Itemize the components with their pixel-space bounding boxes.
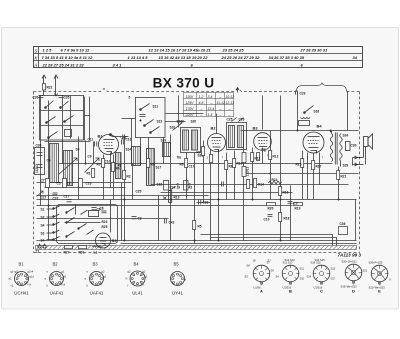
svg-text:C19: C19 xyxy=(86,182,92,186)
choke L1 xyxy=(93,246,102,247)
svg-text:C42: C42 xyxy=(169,221,175,225)
antenna lead 2 xyxy=(54,75,58,96)
wire xyxy=(355,200,357,241)
wire xyxy=(93,142,95,164)
wire xyxy=(262,96,264,130)
resistor R17 xyxy=(312,161,315,170)
svg-text:–: – xyxy=(219,95,222,99)
wire xyxy=(319,153,321,185)
mixer coil box xyxy=(132,147,141,166)
wire left rail xyxy=(37,205,293,207)
IF transformer 1 xyxy=(180,121,201,153)
svg-text:34: 34 xyxy=(353,55,358,60)
svg-text:34 36 37 38 3 40 35: 34 36 37 38 3 40 35 xyxy=(269,55,305,60)
capacitor C11 xyxy=(95,142,97,147)
svg-text:R18: R18 xyxy=(284,217,290,221)
svg-text:S11: S11 xyxy=(300,267,305,271)
resistor R01 xyxy=(79,246,87,249)
wire left rail b xyxy=(45,187,126,189)
svg-text:1 13 14 4 5: 1 13 14 4 5 xyxy=(128,55,149,60)
junction xyxy=(194,240,196,242)
junction xyxy=(330,130,332,132)
wire screen rail xyxy=(59,163,333,165)
tube B4 UL41 xyxy=(303,132,324,154)
wire rail mid xyxy=(151,184,349,186)
svg-text:R17: R17 xyxy=(316,165,322,169)
svg-text:S29: S29 xyxy=(343,164,349,168)
tube B3 UAF41 xyxy=(254,133,272,152)
svg-text:S18: S18 xyxy=(177,120,183,124)
capacitor C33 xyxy=(199,200,201,205)
svg-text:S11: S11 xyxy=(153,105,159,109)
wire left rail c xyxy=(37,195,209,197)
capacitor C35 xyxy=(59,96,64,98)
svg-text:10-12: 10-12 xyxy=(226,95,235,99)
switch wafer B xyxy=(282,265,299,285)
wire xyxy=(302,151,304,200)
table row 3 contacts xyxy=(42,62,304,67)
aerial input switch unit box xyxy=(40,96,84,141)
antenna lead 1 xyxy=(42,75,46,96)
mains plug Z1 xyxy=(38,244,46,249)
svg-text:S20+19+S21: S20+19+S21 xyxy=(342,260,358,264)
volume potentiometer R13 xyxy=(163,191,172,203)
wire xyxy=(70,96,72,139)
svg-text:R20: R20 xyxy=(268,207,274,211)
wire xyxy=(113,155,115,200)
svg-text:3 4 1: 3 4 1 xyxy=(113,62,123,67)
resistor R11 xyxy=(251,153,254,162)
svg-text:R6: R6 xyxy=(180,163,184,167)
svg-text:19: 19 xyxy=(177,186,181,190)
svg-text:C38: C38 xyxy=(36,144,42,148)
svg-text:U1/S16: U1/S16 xyxy=(283,286,292,290)
AF coupling group S18/C24/C19/C43 xyxy=(164,181,189,191)
pin numbers xyxy=(101,154,324,162)
svg-text:C26: C26 xyxy=(239,118,245,122)
table row labels xyxy=(34,48,38,67)
svg-text:R5: R5 xyxy=(198,225,202,229)
wire rail right mid xyxy=(244,173,359,175)
svg-text:C3: C3 xyxy=(294,202,298,206)
switch S2 arrow xyxy=(65,116,74,122)
capacitor C8 xyxy=(92,208,97,210)
wire xyxy=(62,96,64,164)
svg-text:125V: 125V xyxy=(186,101,195,105)
svg-text:7fa: 7fa xyxy=(177,156,182,160)
svg-text:110V: 110V xyxy=(186,95,194,99)
svg-text:C4: C4 xyxy=(47,159,51,163)
wire xyxy=(124,138,126,241)
svg-text:R22: R22 xyxy=(47,86,53,90)
tube base B3 diagram xyxy=(90,272,104,286)
wire xyxy=(243,131,245,241)
resistor stack left of B3 xyxy=(242,153,246,163)
svg-text:R21: R21 xyxy=(341,175,347,179)
svg-text:R2: R2 xyxy=(127,175,131,179)
svg-text:B3: B3 xyxy=(93,262,99,267)
svg-text:1-5: 1-5 xyxy=(208,113,213,117)
svg-text:7 34 33 8 41 9 10 4a 8 11 12: 7 34 33 8 41 9 10 4a 8 11 12 xyxy=(42,55,94,60)
svg-text:S12·S13: S12·S13 xyxy=(285,258,296,262)
svg-text:C17: C17 xyxy=(64,195,70,199)
resistor R9 xyxy=(147,159,150,168)
wire xyxy=(347,92,349,131)
svg-text:R01: R01 xyxy=(79,251,85,255)
svg-text:S9: S9 xyxy=(271,269,275,273)
wire bottom-right corner runs xyxy=(201,235,337,246)
wire xyxy=(85,141,87,164)
wire xyxy=(110,153,112,188)
capacitor C10 xyxy=(268,215,273,217)
resistor R10 xyxy=(233,159,236,168)
svg-text:S20: S20 xyxy=(191,120,197,124)
svg-text:1 2 5: 1 2 5 xyxy=(43,48,53,53)
wire xyxy=(170,135,172,241)
connection table frame xyxy=(34,47,363,68)
svg-text:UAF41: UAF41 xyxy=(50,291,64,296)
wire AGC long rail xyxy=(37,199,357,201)
svg-text:C20: C20 xyxy=(136,190,142,194)
power supply box xyxy=(57,205,118,244)
svg-text:–: – xyxy=(210,101,213,105)
switch contacts inside power box xyxy=(66,208,99,238)
junction xyxy=(270,173,272,175)
svg-text:S1: S1 xyxy=(41,208,45,212)
junction xyxy=(252,199,254,201)
svg-text:C25: C25 xyxy=(227,118,233,122)
svg-text:C37: C37 xyxy=(53,197,59,201)
tube B1 UCH41 xyxy=(99,135,119,155)
svg-text:C5: C5 xyxy=(57,182,61,186)
oscillator switch unit box xyxy=(136,98,166,138)
svg-text:15 16 42 44 13 48 19 20 22: 15 16 42 44 13 48 19 20 22 xyxy=(159,55,209,60)
svg-text:R3: R3 xyxy=(97,163,101,167)
svg-text:R11: R11 xyxy=(255,157,261,161)
svg-text:B2: B2 xyxy=(211,126,217,131)
resistor R2 xyxy=(123,171,126,180)
svg-text:C35: C35 xyxy=(64,96,70,100)
oscillator coil S17 xyxy=(147,149,155,186)
wire B2 grid feed xyxy=(216,114,218,134)
wire xyxy=(197,202,211,204)
svg-text:S22+We+S23: S22+We+S23 xyxy=(369,286,386,290)
svg-text:S13: S13 xyxy=(157,120,163,124)
padder coil box xyxy=(163,143,171,157)
svg-text:C39: C39 xyxy=(340,222,346,226)
wire xyxy=(203,141,205,164)
IF transformer 2 xyxy=(227,123,247,150)
resistor R8a xyxy=(210,155,213,163)
wire left lower rail xyxy=(37,218,169,220)
svg-text:L1: L1 xyxy=(94,251,98,255)
svg-text:C30: C30 xyxy=(351,144,357,148)
wire xyxy=(48,101,50,241)
wire xyxy=(186,153,188,200)
svg-text:UL41: UL41 xyxy=(132,291,143,296)
wire xyxy=(280,96,282,241)
capacitor C37 xyxy=(53,193,58,195)
wire osc to IF xyxy=(166,113,204,115)
svg-text:27 28 29 30 31: 27 28 29 30 31 xyxy=(300,48,328,53)
svg-text:S19: S19 xyxy=(161,139,167,143)
svg-text:R13: R13 xyxy=(174,196,180,200)
resistor R6 xyxy=(185,159,188,168)
svg-text:S17: S17 xyxy=(331,277,336,281)
switch wafer C xyxy=(313,265,330,285)
svg-text:S10: S10 xyxy=(300,277,305,281)
hanging cap boxes on AGC rail xyxy=(46,179,50,188)
svg-text:S3: S3 xyxy=(41,232,45,236)
svg-text:C2: C2 xyxy=(138,217,142,221)
wire xyxy=(352,158,354,166)
wire xyxy=(131,119,133,164)
resistor R15 xyxy=(301,159,304,168)
svg-text:U1/S6: U1/S6 xyxy=(254,286,262,290)
svg-text:S14: S14 xyxy=(307,275,312,279)
svg-text:S2: S2 xyxy=(41,216,45,220)
capacitor C2 xyxy=(132,217,137,219)
wire left rail a xyxy=(37,182,132,184)
svg-text:B5: B5 xyxy=(174,262,180,267)
svg-text:R19: R19 xyxy=(295,207,301,211)
capacitor C9b xyxy=(222,182,224,187)
tube base B4 diagram xyxy=(130,271,145,286)
svg-text:C11: C11 xyxy=(88,138,94,142)
fuse resistor R27 xyxy=(65,246,73,249)
svg-text:–: – xyxy=(200,107,203,111)
resistor R21 xyxy=(337,171,340,180)
svg-text:S4: S4 xyxy=(276,275,280,279)
svg-text:S16·S15: S16·S15 xyxy=(315,258,326,262)
svg-text:13-4: 13-4 xyxy=(208,107,215,111)
resistor R12a xyxy=(257,153,260,161)
electrolytic capacitor C39 xyxy=(339,227,348,235)
svg-text:B5: B5 xyxy=(112,238,118,243)
svg-text:S4: S4 xyxy=(41,224,45,228)
svg-text:S26+P+S25: S26+P+S25 xyxy=(369,261,384,265)
svg-text:K: K xyxy=(35,56,38,61)
aerial coil pack xyxy=(50,144,73,186)
wire xyxy=(210,150,212,241)
svg-text:–: – xyxy=(219,113,222,117)
junction xyxy=(280,240,282,242)
tuning gang capacitor C1 arrows xyxy=(59,158,100,175)
wire xyxy=(173,123,183,131)
svg-text:Z1: Z1 xyxy=(36,250,40,254)
svg-text:g1+g3: g1+g3 xyxy=(11,270,19,274)
tube B2 UAF41 xyxy=(208,134,226,153)
svg-text:C36: C36 xyxy=(33,96,39,100)
switch S11 arrow xyxy=(141,104,150,110)
svg-text:B2: B2 xyxy=(53,262,59,267)
arrow to voltage table xyxy=(236,88,239,93)
svg-text:C17: C17 xyxy=(189,165,195,169)
svg-text:C7: C7 xyxy=(41,179,45,183)
svg-text:–: – xyxy=(228,107,231,111)
junction xyxy=(85,163,87,165)
svg-text:D: D xyxy=(352,289,355,294)
resistor R12 xyxy=(269,151,272,160)
junction xyxy=(124,240,126,242)
scattered small labels left section xyxy=(41,126,176,200)
svg-text:24 25 26 24 27 29 32: 24 25 26 24 27 29 32 xyxy=(221,55,261,60)
wire xyxy=(338,167,340,200)
table row 1 contacts xyxy=(43,48,328,53)
svg-text:R12: R12 xyxy=(273,155,279,159)
resistor R14 xyxy=(254,179,257,188)
svg-text:g1a: g1a xyxy=(30,275,35,279)
resistor R5 xyxy=(193,221,196,230)
svg-text:12 13 14 15 16 17 18 19 49a 20: 12 13 14 15 16 17 18 19 49a 20 21 xyxy=(149,48,212,53)
svg-text:R15: R15 xyxy=(296,163,302,167)
capacitor C29 on chassis line xyxy=(296,91,298,95)
capacitor C3 xyxy=(288,202,293,204)
switch wafer E xyxy=(371,265,388,285)
junction xyxy=(170,199,172,201)
svg-text:5: 5 xyxy=(129,96,131,100)
svg-text:B3: B3 xyxy=(253,126,259,131)
wire B+ rail right xyxy=(241,130,359,132)
dashed chassis outline xyxy=(34,89,360,253)
svg-text:C27: C27 xyxy=(41,196,47,200)
wire xyxy=(163,138,165,164)
svg-text:B4: B4 xyxy=(134,262,140,267)
svg-text:S9: S9 xyxy=(76,148,80,152)
wire bottom rail2 xyxy=(121,243,357,245)
svg-text:S7: S7 xyxy=(268,259,272,263)
capacitor C36 xyxy=(39,96,44,98)
svg-text:R9: R9 xyxy=(151,163,155,167)
rectifier tube B5 UY41 xyxy=(96,233,111,248)
svg-text:R23: R23 xyxy=(102,220,108,224)
svg-text:1-2: 1-2 xyxy=(199,95,204,99)
wire xyxy=(203,164,205,203)
svg-text:C12: C12 xyxy=(121,136,127,140)
svg-text:6 7 8 9a 9 10 11: 6 7 8 9a 9 10 11 xyxy=(61,48,90,53)
resistor R19 xyxy=(294,203,303,206)
svg-text:1.2013: 1.2013 xyxy=(246,167,250,177)
switch wafer A xyxy=(253,265,270,285)
junction xyxy=(338,199,340,201)
wire xyxy=(132,164,134,200)
resistor R20 xyxy=(267,203,276,206)
speaker xyxy=(353,134,373,166)
svg-text:R7: R7 xyxy=(197,151,201,155)
B1 grid cap lead xyxy=(110,134,129,140)
switch S3 arrow xyxy=(46,101,54,108)
junction xyxy=(280,199,282,201)
resistor R4 xyxy=(112,163,115,172)
junction xyxy=(297,130,299,132)
chassis ground hatched bar xyxy=(36,246,357,250)
tube base B5 diagram xyxy=(171,272,185,286)
svg-text:R24: R24 xyxy=(272,178,278,182)
junction xyxy=(48,205,50,207)
svg-text:g2+4: g2+4 xyxy=(28,270,34,274)
svg-text:11217: 11217 xyxy=(35,164,39,173)
svg-text:S21: S21 xyxy=(363,269,368,273)
wire xyxy=(103,155,105,200)
wire xyxy=(234,151,236,200)
trimmer box xyxy=(65,130,72,137)
svg-text:A: A xyxy=(34,63,38,68)
voltage table text xyxy=(185,95,235,117)
wire xyxy=(270,131,272,200)
svg-text:R14: R14 xyxy=(258,183,264,187)
svg-text:C10: C10 xyxy=(105,160,111,164)
svg-text:K: K xyxy=(390,278,392,282)
chassis top border xyxy=(34,89,297,92)
wire xyxy=(78,137,80,200)
svg-text:S3: S3 xyxy=(245,275,249,279)
svg-text:170V: 170V xyxy=(186,107,195,111)
capacitor C12 xyxy=(122,140,124,145)
junction xyxy=(140,120,142,122)
svg-text:S24: S24 xyxy=(343,134,349,138)
wire xyxy=(122,118,136,120)
resistor R22 in antenna lead xyxy=(43,84,46,91)
svg-text:UCH41: UCH41 xyxy=(14,291,29,296)
wire xyxy=(297,93,299,131)
chassis bottom border xyxy=(34,252,360,254)
svg-text:S14: S14 xyxy=(126,148,132,152)
svg-text:B4: B4 xyxy=(317,124,323,129)
svg-text:S8: S8 xyxy=(247,264,251,268)
trimmer box C38/C39 xyxy=(35,148,45,175)
svg-text:B1: B1 xyxy=(98,134,104,139)
svg-text:R27: R27 xyxy=(64,251,70,255)
svg-text:S17: S17 xyxy=(156,166,162,170)
svg-text:11-12: 11-12 xyxy=(217,101,226,105)
wire coil feed xyxy=(45,141,91,143)
oscillator coil S14 xyxy=(116,153,122,179)
svg-text:S19+We+S23: S19+We+S23 xyxy=(341,285,358,289)
junction xyxy=(218,240,220,242)
svg-text:S4: S4 xyxy=(41,239,45,243)
resistor R16 xyxy=(279,187,282,196)
wire xyxy=(218,150,220,241)
tone switch network xyxy=(299,106,314,126)
chassis right border xyxy=(359,92,361,253)
capacitor C30 xyxy=(346,142,351,151)
wire pair from aerial unit xyxy=(85,97,90,141)
svg-text:23 25 24 25: 23 25 24 25 xyxy=(222,48,245,53)
svg-text:S16: S16 xyxy=(314,110,320,114)
svg-text:–: – xyxy=(228,113,231,117)
svg-text:U1/S16: U1/S16 xyxy=(314,286,323,290)
voltage selector table xyxy=(184,93,234,117)
main wiring xyxy=(37,114,359,244)
resistor R7 xyxy=(202,147,205,156)
wire xyxy=(178,96,180,128)
wire rail mid2 xyxy=(161,192,293,194)
svg-text:S15: S15 xyxy=(331,267,336,271)
svg-text:–: – xyxy=(219,107,222,111)
svg-text:7A113 99 3: 7A113 99 3 xyxy=(338,253,362,258)
svg-text:S18: S18 xyxy=(157,183,163,187)
wire xyxy=(140,138,142,164)
svg-text:UAF41: UAF41 xyxy=(90,291,104,296)
resistor R8 xyxy=(225,161,228,170)
wire xyxy=(330,131,332,133)
tube base B1 diagram xyxy=(15,272,29,286)
svg-text:C8: C8 xyxy=(100,207,104,211)
resistor R11b xyxy=(247,180,250,189)
svg-text:R25: R25 xyxy=(102,225,108,229)
resistor R18 xyxy=(279,213,282,222)
switch S5 arrow xyxy=(61,101,69,108)
